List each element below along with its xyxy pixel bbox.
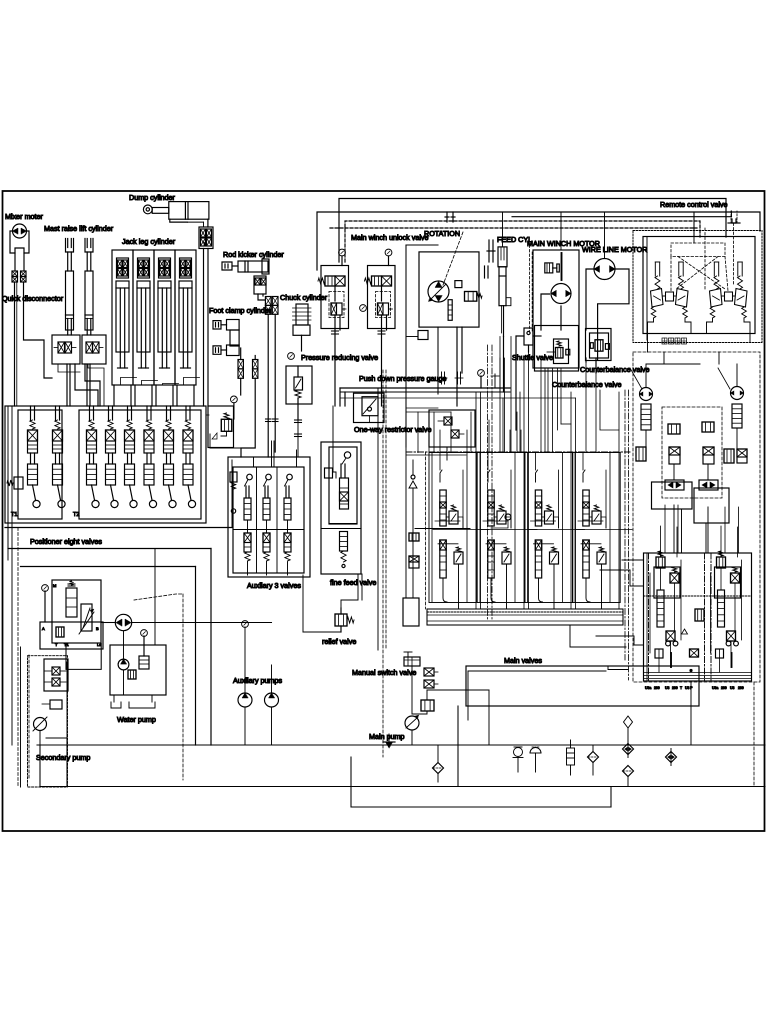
foot clamp relief box bbox=[208, 406, 234, 448]
positioner inner box right bbox=[79, 410, 201, 519]
main valve 3 links bbox=[531, 520, 556, 522]
wire aux 3 bbox=[287, 520, 289, 533]
right arrows a bbox=[665, 480, 684, 490]
wire mast 2 down bbox=[85, 364, 100, 406]
winch brake bbox=[545, 263, 553, 273]
main valve section 4 bbox=[583, 470, 585, 482]
aux3 mid line bbox=[233, 529, 304, 531]
svg-text:Shuttle valve: Shuttle valve bbox=[512, 353, 553, 362]
remote control outer dashed box bbox=[633, 231, 762, 343]
feeder verticals group C bbox=[510, 390, 512, 453]
wire line motor lines bbox=[586, 269, 594, 330]
water tanks bbox=[111, 702, 121, 708]
foot clamp quick disconnect 2 bbox=[253, 360, 258, 369]
wire positioner 8 up bbox=[185, 406, 187, 420]
remote top drop bbox=[693, 212, 695, 237]
relief valve body bbox=[335, 614, 347, 626]
main winch motor box bbox=[533, 250, 579, 368]
secondary valve stack bbox=[44, 659, 68, 691]
remote control inner box bbox=[643, 237, 755, 334]
foot clamp quick disconnect 1 bbox=[238, 360, 243, 369]
secondary dashed box bbox=[28, 656, 68, 787]
positioner outer box bbox=[5, 406, 206, 523]
svg-text:Main pump: Main pump bbox=[369, 732, 405, 741]
right pump circle 2 bbox=[731, 387, 744, 400]
wire shuttle bbox=[516, 336, 524, 430]
wire relief bbox=[211, 558, 303, 632]
bus line y566 bbox=[21, 566, 196, 568]
aux3 relief bbox=[230, 472, 237, 482]
rotation tall box bbox=[405, 245, 407, 447]
positioner valve 7 bbox=[166, 420, 171, 429]
svg-text:Auxilary 3 valves: Auxilary 3 valves bbox=[247, 581, 301, 590]
water pump box bbox=[110, 645, 166, 695]
wire positioner 2 up bbox=[55, 406, 57, 420]
pipe break ticks rodkicker bbox=[266, 418, 272, 420]
main valves band bbox=[427, 609, 623, 625]
remote handle dashed drop bbox=[733, 223, 735, 284]
right bottom box bbox=[644, 553, 752, 681]
hline 690 bbox=[427, 689, 489, 691]
jack leg cylinder 4 bbox=[175, 250, 196, 385]
positioner relief valve bbox=[14, 477, 23, 489]
wire top drop x447 bbox=[446, 212, 448, 222]
svg-text:M: M bbox=[53, 583, 56, 588]
counterbalance valve A body bbox=[586, 329, 612, 361]
dump valve V1 bbox=[199, 227, 213, 249]
manual switch lower valves bbox=[424, 668, 434, 676]
aux pump 2 bbox=[265, 693, 279, 707]
breather B1 bbox=[514, 748, 523, 757]
bus line y548 bbox=[8, 548, 211, 550]
wire winch motor bbox=[541, 294, 550, 330]
right striped cyl 2 bbox=[732, 404, 742, 428]
main valve section 2 bbox=[488, 470, 490, 482]
wire hline y392 bbox=[340, 391, 510, 393]
foot clamp cylinder 1 bbox=[213, 321, 221, 329]
wire aux 2 bbox=[266, 520, 268, 533]
wire bottom bus 2 bbox=[40, 786, 765, 788]
main valve 2 side valve B bbox=[502, 552, 511, 564]
positioner valve 4 bbox=[108, 420, 113, 429]
svg-text:Rod kicker cylinder: Rod kicker cylinder bbox=[223, 250, 284, 259]
wire bus y622 bbox=[101, 622, 115, 624]
trunk pair x476 bbox=[475, 392, 477, 609]
right valve r1a bbox=[668, 424, 680, 434]
svg-text:U3 P: U3 P bbox=[685, 686, 693, 690]
aux valve 3 bbox=[287, 474, 293, 480]
check chain top bbox=[624, 716, 633, 728]
wire top bus 1 bbox=[339, 199, 726, 263]
right valve r2a bbox=[669, 447, 680, 464]
right inner dashed box bbox=[662, 407, 722, 498]
remote inner dashed rect bbox=[671, 243, 725, 257]
wire step into right bottom bbox=[622, 559, 644, 561]
main valve 1 verticals bbox=[431, 453, 433, 603]
remote handle symbol bbox=[731, 211, 737, 223]
right block top links bbox=[646, 364, 700, 387]
right low dashed rail bbox=[753, 682, 755, 786]
trunk pair x500 bbox=[499, 358, 501, 452]
bus drop 195 bbox=[195, 567, 197, 746]
rod kicker cylinder body bbox=[222, 262, 232, 270]
wire secondary dash x29 bbox=[28, 655, 30, 780]
main pump valve bbox=[421, 700, 434, 711]
main valve 1 side valve B bbox=[454, 552, 463, 564]
svg-text:200: 200 bbox=[721, 686, 727, 690]
trunk x362 bbox=[361, 574, 363, 600]
secondary lower ext bbox=[66, 643, 101, 669]
svg-text:Foot clamp cylinder: Foot clamp cylinder bbox=[209, 306, 272, 315]
svg-text:Quick disconnector: Quick disconnector bbox=[2, 294, 64, 303]
fine feed valve body bbox=[344, 452, 350, 458]
accumulator A1 bbox=[567, 748, 575, 765]
border frame bbox=[3, 191, 765, 831]
right diag pointers bbox=[630, 368, 642, 389]
trunk x541 down bbox=[540, 358, 542, 452]
right middle lower valve bbox=[690, 649, 699, 657]
wire positioner 6 up bbox=[146, 406, 148, 420]
wire top bus 2b bbox=[512, 216, 732, 218]
trunk solid x378 bbox=[377, 388, 379, 650]
remote below drops bbox=[647, 334, 649, 353]
rod kicker valve bbox=[254, 276, 266, 294]
check valve left bbox=[409, 481, 417, 488]
verticals under mast/jack bbox=[113, 385, 115, 406]
bus line y527 bbox=[5, 527, 232, 529]
wire dump valve down bbox=[203, 249, 205, 407]
positioner valve 8 bbox=[185, 420, 190, 429]
big left L wire bbox=[11, 553, 13, 745]
trunk dashed x183 bbox=[182, 594, 184, 780]
wire aux top entries bbox=[253, 457, 255, 467]
rotation aux valves bbox=[455, 281, 462, 288]
wire mast rods bbox=[66, 364, 68, 406]
main valves left box bbox=[403, 598, 419, 626]
mast raise cylinder 1 bbox=[66, 239, 74, 253]
water valve body bbox=[139, 656, 149, 669]
svg-text:Water pump: Water pump bbox=[117, 715, 156, 724]
secondary pump circle bbox=[34, 718, 47, 731]
wire jack 2 down bbox=[134, 385, 136, 406]
filter F1 bbox=[433, 763, 444, 774]
winch unlock valve 2 bbox=[368, 266, 396, 329]
right bottom bus lines bbox=[644, 672, 752, 674]
secondary mid box bbox=[40, 622, 103, 649]
filter F2 bbox=[588, 752, 599, 763]
positioner valve 1 bbox=[30, 420, 35, 429]
secondary small valve bbox=[56, 627, 64, 637]
svg-text:Counterbalance valve: Counterbalance valve bbox=[580, 365, 650, 374]
positioner valve 5 bbox=[127, 420, 132, 429]
wire gauge drops bbox=[339, 388, 341, 406]
svg-text:200: 200 bbox=[672, 686, 678, 690]
positioner valve 2 bbox=[55, 420, 60, 429]
main valves dashed trunk x425 bbox=[425, 452, 427, 609]
unlock extra gauge bbox=[360, 305, 367, 312]
aux3 outer box bbox=[228, 457, 310, 577]
secondary throttle bbox=[81, 604, 92, 631]
mid right dashed rail 2 bbox=[491, 345, 493, 620]
mixer motor housing bbox=[10, 231, 29, 253]
svg-text:200: 200 bbox=[738, 686, 744, 690]
svg-text:Main valves: Main valves bbox=[504, 656, 542, 665]
wire left frame inner bbox=[7, 406, 9, 560]
wire water pump bbox=[123, 631, 125, 659]
bus drop 211 bbox=[210, 549, 212, 746]
wire mixer right bbox=[23, 253, 25, 271]
trunk x596 bbox=[595, 373, 597, 452]
right bottom entries bbox=[664, 505, 666, 553]
wire positioner 3 up bbox=[89, 406, 91, 420]
water pump ell bbox=[118, 659, 129, 670]
wire feed cyl down bbox=[503, 337, 505, 393]
mid valve a bbox=[444, 417, 452, 425]
wire bottom bus 1 bbox=[37, 744, 765, 746]
secondary lower valve bbox=[50, 700, 62, 709]
secondary spring valve bbox=[66, 588, 77, 617]
wire top bus 3 dashed bbox=[345, 221, 700, 262]
main valve 4 side valve B bbox=[597, 552, 606, 564]
right side small valves bbox=[636, 447, 646, 461]
winch valve cluster bbox=[535, 326, 579, 372]
wire manual sw vert bbox=[411, 745, 413, 757]
right valve r1b bbox=[702, 422, 714, 432]
wire hline y398 bbox=[340, 397, 576, 399]
mid right dashed rail 1 bbox=[487, 345, 489, 620]
svg-text:U3a: U3a bbox=[712, 686, 718, 690]
svg-text:Push down pressure gauge: Push down pressure gauge bbox=[359, 374, 447, 383]
main winch motor circle bbox=[551, 284, 571, 304]
svg-text:U3a: U3a bbox=[645, 686, 651, 690]
right block left dashed rail bbox=[624, 390, 626, 660]
right valve r2b bbox=[703, 447, 714, 464]
right arrows b bbox=[699, 480, 718, 490]
rod kicker quick disconnect pair bbox=[265, 297, 271, 306]
svg-text:T2: T2 bbox=[73, 512, 79, 518]
secondary gauge bbox=[42, 585, 49, 592]
svg-text:Auxilary pumps: Auxilary pumps bbox=[233, 676, 283, 685]
quick disconnector QD1 bbox=[12, 271, 18, 277]
positioner valve 3 bbox=[89, 420, 94, 429]
pipe break ticks chuck bbox=[295, 419, 302, 421]
bus y452 dashdot bbox=[406, 451, 630, 453]
aux pump 1 bbox=[238, 693, 252, 707]
wire aux 1 bbox=[247, 520, 249, 533]
remote dashed links bbox=[670, 257, 672, 292]
one-way restrictor body bbox=[354, 393, 385, 422]
filter chain mid bbox=[623, 744, 634, 755]
wire pressure reducing bbox=[297, 419, 299, 436]
wire mid cluster bbox=[446, 447, 448, 460]
right clusters internal verticals bbox=[660, 526, 662, 557]
wire positioner 5 up bbox=[127, 406, 129, 420]
svg-text:Ls: Ls bbox=[97, 642, 101, 647]
mast valve box 1 bbox=[52, 335, 80, 364]
wire right exit bottom bbox=[690, 681, 692, 745]
right sub verticals bbox=[681, 509, 683, 553]
right cluster 1 lower valves bbox=[666, 631, 675, 641]
wire gauge bus bbox=[340, 387, 510, 389]
main valve section 3 bbox=[536, 470, 538, 482]
shuttle valve body bbox=[524, 328, 533, 345]
remote pair 657.5 bbox=[654, 262, 656, 276]
aux gauge bbox=[242, 621, 249, 628]
right cluster 2 valve top bbox=[717, 557, 726, 568]
svg-text:Counterbalance valve: Counterbalance valve bbox=[552, 380, 622, 389]
wire positioner 7 up bbox=[166, 406, 168, 420]
foot clamp yoke bbox=[230, 330, 239, 346]
bus y452b bbox=[406, 454, 466, 456]
foot clamp cylinder 2 bbox=[213, 346, 221, 354]
svg-text:200: 200 bbox=[654, 686, 660, 690]
right cluster 2 frame bbox=[715, 567, 741, 598]
trunk x586 counterbalance bbox=[585, 362, 587, 452]
pump suction arrow bbox=[386, 742, 393, 748]
main valve 4 side valve A bbox=[592, 511, 601, 524]
wire main pump bbox=[411, 730, 413, 745]
main valve gauge 2 bbox=[505, 514, 511, 520]
wire fine feed bbox=[332, 406, 334, 471]
right cluster 2 spool bbox=[718, 590, 725, 627]
feeder horizontals bbox=[406, 407, 438, 409]
mid valve cluster box bbox=[429, 410, 475, 447]
wire unlock valve 2 down bbox=[381, 315, 383, 406]
svg-text:Positioner eight valves: Positioner eight valves bbox=[30, 537, 102, 546]
svg-text:Remote control valve: Remote control valve bbox=[660, 200, 728, 209]
svg-text:ROTATION: ROTATION bbox=[424, 229, 460, 238]
main valve 2 verticals bbox=[479, 453, 481, 603]
trunk dashed x383 bbox=[382, 370, 384, 757]
trunk pair x548 bbox=[547, 368, 549, 452]
wire top drop wireline bbox=[604, 212, 606, 258]
water gauge bbox=[141, 630, 148, 637]
left small valves bbox=[409, 533, 419, 541]
svg-text:Dump cylinder: Dump cylinder bbox=[129, 193, 176, 202]
wire jack 3 down bbox=[155, 385, 157, 406]
trunk pair x571 bbox=[570, 392, 572, 609]
svg-text:A: A bbox=[42, 626, 45, 631]
filter F3 bbox=[666, 752, 677, 763]
trunk solid x358 bbox=[357, 574, 359, 600]
fine feed outer box bbox=[321, 442, 361, 574]
pressure reducing valve gauge bbox=[288, 353, 295, 360]
right dashdot verticals bbox=[648, 553, 650, 681]
winch drops bbox=[544, 368, 546, 452]
svg-text:WIRE LINE MOTOR: WIRE LINE MOTOR bbox=[582, 245, 647, 254]
main valve 2 side valve A bbox=[497, 511, 506, 524]
chuck body ext bbox=[293, 325, 310, 335]
main valve 1 links bbox=[435, 520, 460, 522]
wire hlines mid-left bbox=[206, 414, 209, 416]
wire bottom bus 3 bbox=[351, 757, 611, 807]
main valve 2 links bbox=[483, 520, 508, 522]
svg-text:Mast raise lift cylinder: Mast raise lift cylinder bbox=[44, 224, 114, 233]
water small valve bbox=[128, 670, 136, 679]
main valve 1 side valve A bbox=[449, 511, 458, 524]
wire positioner 1 up bbox=[30, 406, 32, 420]
bus left verticals bbox=[7, 460, 9, 549]
svg-text:B: B bbox=[96, 626, 99, 631]
remote chinese label bbox=[662, 338, 667, 344]
bus tick marks bbox=[441, 372, 443, 384]
rotation pump circle bbox=[428, 281, 449, 302]
steps from counterbalance bbox=[600, 390, 619, 430]
secondary top box bbox=[52, 580, 101, 643]
rotation assembly box bbox=[419, 252, 479, 327]
rotation label pointer bbox=[443, 232, 463, 285]
aux valve 1 bbox=[247, 474, 253, 480]
main valve section boxes bbox=[429, 453, 476, 603]
svg-text:T1: T1 bbox=[64, 642, 69, 647]
mast raise cylinder 2 bbox=[85, 239, 93, 253]
wire trunk dashed x18 bbox=[17, 528, 19, 787]
filter chain bottom bbox=[623, 766, 634, 777]
jack leg cylinder 2 bbox=[133, 250, 154, 385]
wire trunk x12 bbox=[11, 406, 13, 745]
aux valve 2 bbox=[266, 474, 272, 480]
positioner valve 6 bbox=[146, 420, 151, 429]
wire water drop bbox=[151, 695, 153, 702]
trunk dashed x386 bbox=[385, 370, 387, 650]
svg-text:Jack leg cylinder: Jack leg cylinder bbox=[122, 237, 176, 246]
svg-text:Manual switch valve: Manual switch valve bbox=[352, 668, 416, 677]
wire unlock valve 1 down bbox=[334, 315, 336, 406]
trunk pair x619 bbox=[618, 392, 620, 609]
feeder verticals group A bbox=[417, 412, 419, 453]
water motor circle bbox=[115, 614, 131, 630]
winch lever bbox=[561, 253, 563, 280]
jack leg cylinder 3 bbox=[154, 250, 175, 385]
wire converge h1 bbox=[207, 270, 209, 406]
wire qd down-left bbox=[14, 282, 16, 406]
wire qd down-right bbox=[24, 282, 53, 378]
right cluster 1 spool bbox=[657, 590, 664, 627]
fine feed mid lines bbox=[329, 523, 357, 525]
aux3 inner box bbox=[233, 467, 304, 573]
gauge foot clamp bbox=[231, 396, 238, 403]
main pump circle bbox=[405, 716, 419, 730]
wire top drop winch bbox=[560, 212, 562, 250]
wire rotation down bbox=[456, 327, 458, 406]
right sub boxes bbox=[652, 482, 693, 509]
fine feed inner box bbox=[329, 447, 357, 524]
svg-text:Main winch unlock valve: Main winch unlock valve bbox=[351, 233, 429, 242]
wire mast 1 down bbox=[75, 364, 98, 406]
chuck cylinder body bbox=[296, 304, 308, 325]
breather B2 bbox=[530, 748, 541, 754]
water box feeds bbox=[154, 549, 156, 646]
wire aux pumps bbox=[244, 707, 246, 745]
bus drop 232 bbox=[231, 460, 233, 528]
wire chuck down bbox=[301, 335, 303, 351]
wire foot clamp bbox=[240, 348, 242, 360]
main valve 4 verticals bbox=[574, 453, 576, 603]
right cluster 1 frame bbox=[654, 567, 680, 598]
feed cylinder bbox=[498, 247, 507, 267]
wire positioner 4 up bbox=[108, 406, 110, 420]
water pump circle bbox=[118, 659, 129, 670]
right cluster 1 valve top bbox=[656, 557, 665, 568]
wire top bus 2 bbox=[317, 212, 760, 270]
wire rod kicker qd down bbox=[267, 314, 269, 457]
main valve 3 verticals bbox=[527, 453, 529, 603]
band drop 608 bbox=[608, 666, 628, 670]
wire top bus 4 dashed bbox=[330, 227, 697, 229]
main valve section 1 bbox=[440, 470, 442, 482]
fine feed side tab bbox=[325, 468, 333, 478]
wire manual switch bbox=[411, 666, 413, 714]
